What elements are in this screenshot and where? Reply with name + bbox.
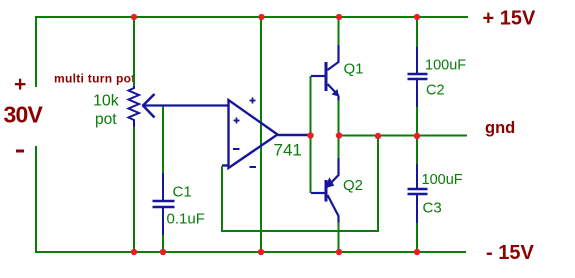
wire: left battery lead top — [35, 16, 37, 87]
wire: gnd output line — [339, 135, 468, 137]
node: top rail / Q1 collector junction — [336, 14, 342, 20]
svg-text:multi turn pot: multi turn pot — [54, 72, 136, 86]
node: emitters / gnd line junction — [336, 132, 342, 138]
capacitor C3 — [408, 164, 428, 224]
node: gnd line / C2 C3 junction — [414, 133, 420, 139]
op-amp supply - mark — [250, 166, 257, 168]
svg-text:30V: 30V — [4, 102, 44, 128]
wire: pot lower lead — [133, 127, 135, 252]
svg-text:pot: pot — [95, 111, 117, 128]
node: bottom rail / C3 junction — [414, 249, 420, 255]
wire: Q2 emitter to gnd node — [338, 136, 340, 159]
wire: feedback from gnd node to inverting input — [222, 136, 378, 231]
svg-text:- 15V: - 15V — [486, 242, 534, 264]
transistor Q2 — [311, 158, 339, 223]
wire: op-amp supply line from +15V to -15V — [260, 16, 262, 252]
wire: C3 upper lead from gnd — [416, 136, 418, 165]
node: top rail / pot junction — [131, 14, 137, 20]
wire: base drive line from op-amp output — [310, 76, 312, 193]
wire: top +15V rail — [35, 16, 468, 18]
svg-text:C1: C1 — [173, 184, 192, 201]
op-amp inverting input - mark — [233, 148, 240, 150]
capacitor C1 — [153, 173, 175, 236]
wire: pot upper lead — [133, 16, 135, 87]
transistor Q1 — [311, 45, 339, 101]
svg-text:0.1uF: 0.1uF — [167, 211, 205, 228]
wire: Q2 collector to -15V rail — [338, 222, 340, 252]
wire: C2 lower lead to gnd — [416, 107, 418, 136]
node: bottom rail / Q2 collector junction — [336, 249, 342, 255]
wire: C1 lower lead to -15V rail — [162, 235, 164, 252]
op-amp U1 741 — [222, 100, 310, 168]
battery negative terminal label — [16, 150, 24, 153]
wire: left battery lead bottom — [35, 146, 37, 252]
potentiometer R1 10k multi-turn — [129, 86, 140, 127]
node: bottom rail / op-amp supply junction — [258, 249, 264, 255]
svg-text:+ 15V: + 15V — [483, 8, 536, 30]
pot wiper arrow and wire to op-amp non-inverting input — [143, 94, 228, 118]
svg-text:10k: 10k — [93, 93, 120, 110]
node: top rail / op-amp supply junction — [258, 14, 264, 20]
svg-text:741: 741 — [274, 141, 302, 160]
wire: wiper node down to C1 — [162, 107, 164, 175]
node: top rail / C2 junction — [414, 14, 420, 20]
svg-text:Q2: Q2 — [343, 177, 363, 194]
wire: C2 upper lead from +15V rail — [416, 16, 418, 48]
wire: Q1 emitter to gnd node — [338, 100, 340, 136]
svg-text:100uF: 100uF — [425, 58, 466, 74]
node: bottom rail / pot junction — [131, 249, 137, 255]
svg-text:gnd: gnd — [485, 119, 515, 137]
node: gnd line / feedback junction — [375, 133, 381, 139]
node: bottom rail / C1 junction — [160, 249, 166, 255]
wire: bottom -15V rail — [35, 251, 466, 253]
svg-text:Q1: Q1 — [344, 61, 364, 78]
op-amp supply + mark — [250, 98, 256, 104]
svg-text:C3: C3 — [423, 200, 442, 217]
op-amp non-inverting input + mark — [234, 118, 240, 124]
svg-text:+: + — [14, 73, 26, 96]
capacitor C2 — [408, 47, 428, 108]
svg-text:C2: C2 — [426, 83, 445, 99]
wire: Q1 collector to +15V rail — [338, 16, 340, 46]
wire: C3 lower lead to -15V rail — [416, 223, 418, 252]
svg-text:100uF: 100uF — [422, 172, 463, 188]
node: op-amp output / base drive junction — [307, 132, 313, 138]
